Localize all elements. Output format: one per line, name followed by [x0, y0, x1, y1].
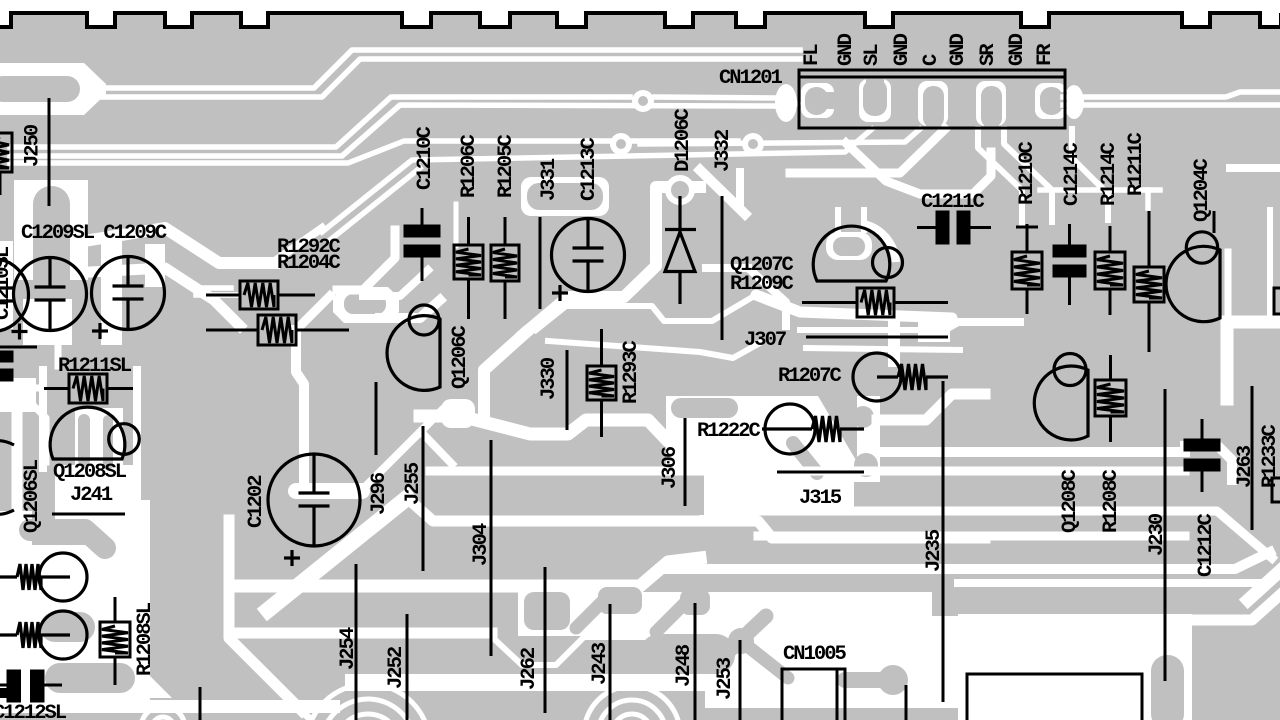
svg-text:J248: J248 [673, 644, 696, 687]
svg-text:Q1208SL: Q1208SL [53, 461, 127, 484]
capacitor C1210C [405, 208, 439, 281]
svg-text:R1233C: R1233C [1259, 424, 1280, 488]
wire diagonal bus C1209C to R1292C [90, 228, 274, 263]
wire bottom band [0, 700, 340, 713]
svg-text:J243: J243 [589, 642, 612, 685]
svg-text:R1204C: R1204C [277, 252, 341, 275]
svg-text:R1222C: R1222C [697, 420, 761, 443]
resistor R1209C [802, 288, 948, 317]
jumper J307 [806, 336, 948, 339]
svg-text:Q1206C: Q1206C [449, 325, 472, 389]
svg-text:J304: J304 [470, 523, 493, 566]
svg-text:C1202: C1202 [245, 475, 268, 528]
transistor Q1207C [813, 226, 902, 281]
pad above C1213C [521, 177, 609, 216]
wire fan below CN1201 [322, 129, 872, 232]
svg-text:C1211C: C1211C [921, 191, 985, 214]
svg-text:C1210C: C1210C [414, 126, 437, 190]
jumper J254 [355, 564, 358, 720]
capacitor C1210SL left edge bars [0, 347, 37, 380]
svg-text:R1211C: R1211C [1125, 132, 1148, 196]
svg-text:GND: GND [947, 33, 970, 66]
resistor R1211C [1134, 211, 1164, 352]
svg-text:R1208SL: R1208SL [134, 602, 157, 676]
jumper J263 [1251, 386, 1254, 530]
wire right edge traces [1230, 164, 1280, 172]
resistor R1208SL [100, 597, 130, 685]
resistor R1210C [1012, 224, 1042, 314]
svg-text:C1209SL C1209C: C1209SL C1209C [21, 222, 167, 245]
svg-text:C1213C: C1213C [578, 137, 601, 201]
svg-text:GND: GND [1006, 33, 1029, 66]
pad via (643,101) [632, 90, 654, 112]
svg-text:J330: J330 [538, 357, 561, 400]
board edge [0, 13, 1280, 27]
diode D1206C [665, 196, 696, 304]
transistor Q1206C [387, 305, 440, 390]
svg-text:R1211SL: R1211SL [58, 355, 132, 378]
svg-text:J296: J296 [368, 472, 391, 515]
transistor Q1208C [1034, 354, 1088, 441]
wire stair channel to Q1206C [524, 187, 700, 334]
svg-text:R1293C: R1293C [620, 340, 643, 404]
transistor Q1206SL partial [0, 441, 14, 515]
CN1201 pad FL [805, 87, 828, 115]
jumper J230 [1164, 389, 1167, 681]
svg-text:Q1208C: Q1208C [1059, 469, 1082, 533]
svg-text:SL: SL [861, 44, 884, 66]
svg-text:GND: GND [891, 33, 914, 66]
svg-text:R1205C: R1205C [495, 134, 518, 198]
svg-text:R1208C: R1208C [1100, 469, 1123, 533]
resistor R1206C [454, 217, 483, 319]
jumper J315 [777, 471, 864, 474]
resistor R1208C [1095, 355, 1126, 442]
clearance left bottom zone [0, 545, 150, 705]
svg-text:R1210C: R1210C [1016, 141, 1039, 205]
resistor R1214C [1095, 226, 1125, 315]
wire diagonal motorway [268, 498, 407, 610]
CN1201 pad clearances [801, 83, 834, 118]
wire stub near CN1005 [905, 685, 908, 720]
svg-text:J263: J263 [1234, 445, 1257, 488]
jumper J262 [544, 567, 547, 713]
svg-text:Q1206SL: Q1206SL [21, 459, 44, 533]
svg-text:J332: J332 [712, 129, 735, 172]
CN1201 pad C [981, 86, 1002, 128]
CN1201 pad SL [923, 86, 944, 128]
capacitor C1213C [552, 219, 625, 302]
resistor R1233C fragment [1272, 478, 1280, 502]
wire left middle channels [0, 385, 37, 392]
jumper J241 [52, 513, 125, 516]
wire center-bottom bands [238, 558, 700, 586]
resistor right edge fragment top [1274, 288, 1280, 314]
transistor Q1204C [1166, 232, 1220, 322]
svg-text:R1206C: R1206C [458, 134, 481, 198]
jumper J330 [566, 350, 569, 430]
jumper J331 [539, 217, 542, 309]
jumper J255 [422, 426, 425, 571]
CN1201 pad FR [1040, 87, 1063, 115]
wire traces right of R1222C [877, 394, 985, 420]
svg-text:J307: J307 [744, 329, 786, 352]
svg-text:C: C [920, 54, 943, 66]
capacitor C1211C [917, 212, 991, 243]
connector bottom right box [967, 674, 1142, 720]
svg-text:C1214C: C1214C [1061, 142, 1084, 206]
svg-text:D1206C: D1206C [672, 108, 695, 172]
transistor Q1208SL [50, 407, 139, 459]
resistor R1292C [206, 281, 315, 309]
node R1210C top tick [1016, 226, 1038, 229]
pad channel J250 stadium [14, 180, 88, 280]
jumper J306 [684, 418, 687, 506]
svg-text:J306: J306 [659, 446, 682, 489]
wire top-left pad entry [0, 63, 106, 115]
wire flare at C1212C [1185, 446, 1232, 480]
capacitor C1202 [268, 454, 360, 566]
wire channels near J307/Q1207C [800, 327, 946, 333]
jumper J250 [48, 98, 51, 206]
svg-text:J253: J253 [714, 657, 737, 700]
capacitor C1212C [1185, 419, 1219, 492]
jumper J252 [406, 614, 409, 720]
resistor R1293C [587, 329, 616, 437]
jumper J304 [490, 440, 493, 656]
svg-text:C1212C: C1212C [1195, 513, 1218, 577]
wire band through C1202 [296, 483, 362, 499]
CN1201 pad GND [863, 79, 887, 116]
svg-text:SR: SR [977, 43, 1000, 66]
resistor R1211SL [44, 374, 133, 403]
jumper J235 [942, 381, 945, 702]
capacitor C1214C [1054, 224, 1085, 305]
wire channel beside slab [229, 520, 302, 711]
svg-text:FL: FL [801, 44, 824, 66]
resistor R1207C [853, 353, 948, 401]
clearance bottom right [958, 614, 1192, 720]
clearance around CN1005 [518, 592, 932, 636]
svg-text:GND: GND [835, 33, 858, 66]
svg-text:CN1201: CN1201 [719, 67, 783, 90]
svg-text:C1212SL: C1212SL [0, 702, 67, 720]
svg-text:J255: J255 [402, 462, 425, 505]
svg-text:J315: J315 [799, 487, 842, 510]
jumper J253 [739, 640, 742, 720]
svg-text:J331: J331 [538, 158, 561, 201]
wire trace pair right of CN1201 [1063, 92, 1280, 97]
resistor left circle pair top [0, 553, 87, 601]
wire snake channel mid board [420, 416, 706, 441]
svg-text:CN1005: CN1005 [783, 643, 847, 666]
via rings bottom edge [141, 684, 680, 720]
connector CN1005 [782, 669, 845, 720]
resistor left edge fragment [0, 133, 12, 195]
svg-text:J252: J252 [385, 646, 408, 689]
svg-text:C1210SL: C1210SL [0, 246, 15, 320]
resistor R1204C [206, 315, 349, 345]
jumper J332 [721, 196, 724, 340]
svg-text:FR: FR [1034, 43, 1057, 66]
svg-text:R1207C: R1207C [778, 365, 842, 388]
small black fragment bottom left [0, 688, 8, 698]
wire Q1204C lead [1213, 211, 1216, 233]
svg-text:J254: J254 [337, 627, 360, 670]
svg-text:R1214C: R1214C [1098, 142, 1121, 206]
connector CN1201 [799, 70, 1065, 128]
wire traces T1/T2 to CN1201 [92, 50, 800, 88]
resistor R1205C [491, 217, 519, 319]
wire lower-left trace bundle [10, 97, 630, 147]
jumper J243 [609, 604, 612, 720]
capacitor left edge partial [0, 259, 29, 332]
clearance around R1211SL/Q1208SL [0, 378, 36, 412]
jumper J296 [375, 382, 378, 455]
jumper J248 [694, 603, 697, 720]
capacitor C1209C [92, 257, 165, 340]
svg-text:J250: J250 [22, 124, 45, 167]
svg-text:J241: J241 [70, 484, 113, 507]
resistor left circle pair bottom [0, 611, 87, 659]
svg-text:R1209C: R1209C [730, 273, 794, 296]
svg-text:Q1204C: Q1204C [1191, 158, 1214, 222]
svg-text:J235: J235 [923, 529, 946, 572]
svg-text:J230: J230 [1146, 513, 1169, 556]
capacitor C1209SL [12, 258, 87, 340]
wire stub bottom left [199, 687, 202, 720]
pad D1206C top [665, 175, 695, 205]
resistor R1222C [762, 404, 864, 454]
clearance around R1222C/J315 [666, 396, 880, 482]
capacitor C1212SL bottom left [0, 671, 62, 701]
svg-text:J262: J262 [518, 647, 541, 690]
wire verticals below CN1201 right [978, 129, 1022, 224]
